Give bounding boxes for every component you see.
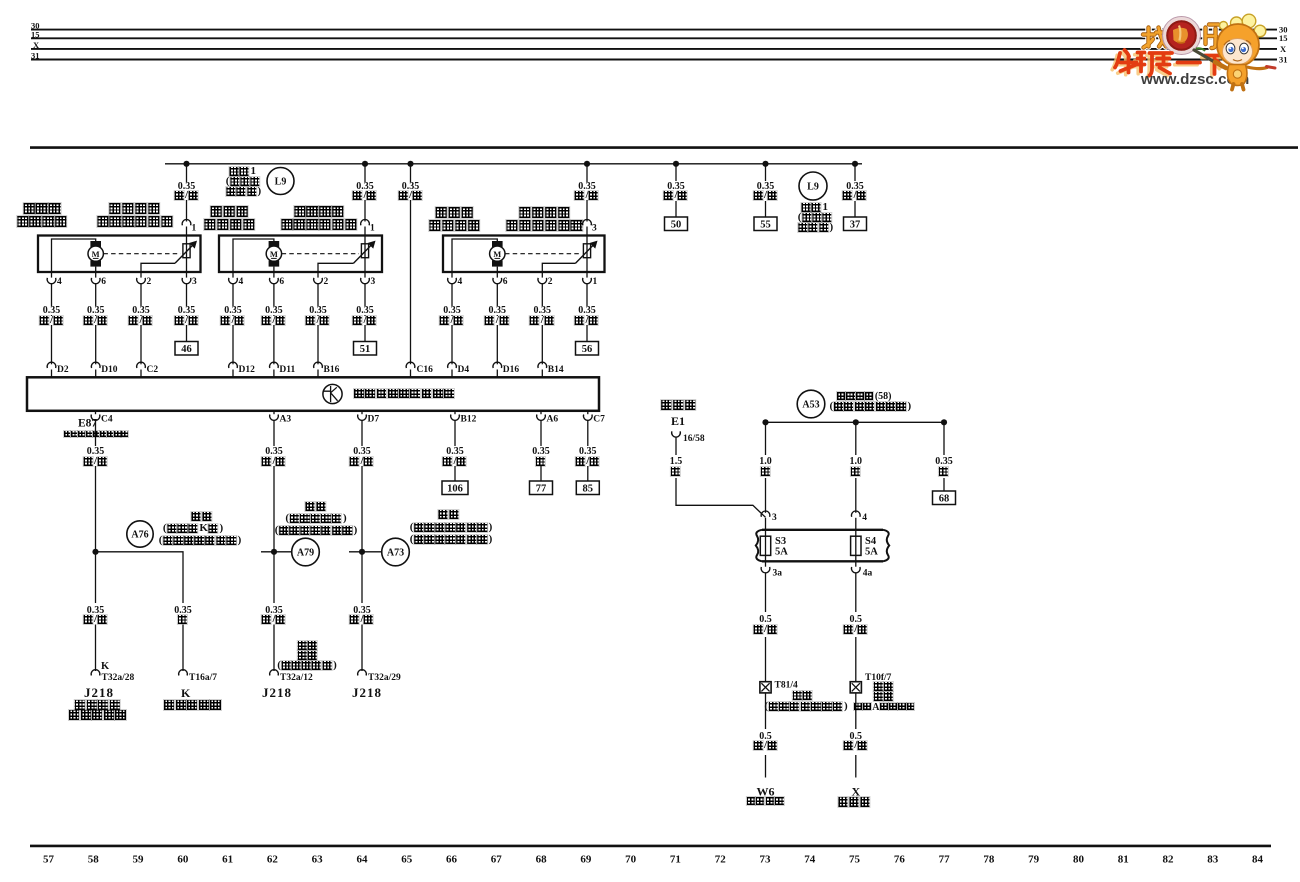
label 连接(自诊断K线)(在仪表板线束内) [191, 512, 212, 521]
wire continues down x=362 [361, 466, 363, 552]
svg-text:L9: L9 [807, 182, 819, 193]
fuse S4 5A [851, 530, 879, 562]
wire down to control unit connector B16 [317, 305, 319, 364]
terminal T32a/12 arc [270, 670, 279, 676]
svg-text:65: 65 [401, 854, 413, 866]
svg-text:16/58: 16/58 [683, 434, 705, 444]
wire continues down x=274 [273, 466, 275, 552]
terminal box 46 [175, 342, 198, 356]
connector C2 arc [137, 362, 146, 368]
wire gauge label 0.35 at x=365 [355, 182, 376, 191]
label 连接(环境温度指示器)(在仪表板线束内) [438, 510, 459, 519]
connector B14 arc [538, 362, 547, 368]
svg-text:106: 106 [447, 484, 463, 495]
svg-text:4: 4 [57, 277, 62, 287]
wire gauge label 0.5 at x=765.5 [758, 615, 774, 624]
svg-text:66: 66 [446, 854, 458, 866]
svg-text:68: 68 [939, 494, 950, 505]
wire down to control unit connector D16 [496, 305, 498, 364]
wire gauge label 1.0 at x=765.5 [758, 457, 774, 466]
fuse holder box (S3,S4) [756, 530, 889, 562]
svg-text:79: 79 [1028, 854, 1040, 866]
label 连接1(在空调线束内) left [230, 167, 257, 176]
label 空调电控和显示单元 (under E87) [64, 431, 129, 437]
pin 3 of defrost flap motor V107 / potentiometer G135 [361, 272, 376, 305]
svg-text:68: 68 [536, 854, 548, 866]
pin 2 of left temperature motor V158 / potentiometer G220 [137, 272, 152, 305]
svg-text:4: 4 [458, 277, 463, 287]
svg-text:46: 46 [181, 344, 192, 355]
wire gauge label 1.0 at x=855.8 [848, 457, 864, 466]
svg-text:77: 77 [939, 854, 951, 866]
wire gauge label 0.35 at x=542.3 [532, 306, 553, 315]
svg-text:A3: A3 [280, 415, 292, 425]
wire from pin to terminal box 51 [364, 305, 366, 342]
label 插头 棕色 左侧A柱分线器 [874, 682, 895, 691]
wire red/yellow feed to pot top pin at x=365 [364, 164, 366, 222]
wire gauge label 0.35 at x=274 [264, 606, 285, 615]
wire gauge label 0.35 at x=183 [173, 606, 194, 615]
connector D12 arc [229, 362, 238, 368]
watermark: mascot [1194, 14, 1275, 89]
svg-text:4: 4 [862, 513, 867, 523]
wire gauge label 0.35 at x=541 [531, 447, 552, 456]
terminal T32a/29 arc [358, 670, 367, 676]
svg-text:80: 80 [1073, 854, 1085, 866]
pin 6 of left temperature motor V158 / potentiometer G220 [91, 272, 106, 305]
svg-text:T16a/7: T16a/7 [189, 673, 217, 683]
wire down to terminal T16a/7 [182, 602, 184, 604]
svg-text:L9: L9 [275, 177, 287, 188]
bottom track numbers 57-84 [43, 854, 1264, 866]
wire red/yellow feed to pot top pin at x=186.5 [186, 164, 188, 222]
junction node x=186.5 [183, 161, 189, 167]
terminal 16/58 of E1 [672, 431, 705, 455]
wire down to control unit connector B14 [541, 305, 543, 364]
pin 4 of left temperature motor V158 / potentiometer G220 [47, 272, 62, 305]
wire 0.35 grey stub to terminal box 68 [943, 422, 945, 455]
terminal box 50 [665, 217, 688, 231]
wire red/yellow feed to pot top pin at x=587 [586, 164, 588, 222]
wire gauge label 0.35 at x=765.5 [755, 182, 776, 191]
svg-text:15: 15 [31, 29, 40, 39]
wire gauge label 0.35 at x=944 [934, 457, 955, 466]
wire 1.5 grey from E1 to fuse S3 [676, 478, 766, 517]
svg-text:M: M [92, 249, 100, 259]
wire gauge label 0.35 at x=365 [355, 306, 376, 315]
connector L9 (left) [267, 168, 294, 195]
svg-text:3: 3 [592, 224, 597, 234]
svg-text:64: 64 [356, 854, 368, 866]
junction node on C4 wire [92, 549, 98, 555]
branch wire to diagnostic K-line [96, 552, 184, 603]
junction node on D7 wire [359, 549, 365, 555]
watermark: magnifier over xin [1163, 17, 1201, 55]
svg-text:2: 2 [324, 277, 329, 287]
wire gauge label 0.5 at x=855.8 [848, 732, 864, 741]
wire gauge label 0.35 at x=587 [577, 306, 598, 315]
svg-text:60: 60 [177, 854, 189, 866]
connector D4 arc [448, 362, 457, 368]
wire red/yellow stub to terminal box 50 [675, 164, 677, 181]
svg-text:76: 76 [894, 854, 906, 866]
connector D11 arc [270, 362, 279, 368]
wire gauge label 0.35 at x=452 [442, 306, 463, 315]
svg-text:78: 78 [983, 854, 995, 866]
wire down to control unit connector D10 [95, 305, 97, 364]
svg-text:85: 85 [583, 484, 594, 495]
terminal T32a/28 arc [91, 670, 100, 676]
svg-text:62: 62 [267, 854, 279, 866]
wire gauge label 0.35 at x=410.5 [400, 182, 421, 191]
wire gauge label 0.35 at x=95.5 [85, 606, 106, 615]
svg-text:A76: A76 [131, 530, 148, 541]
svg-text:70: 70 [625, 854, 637, 866]
A/C control and display unit E87 box [27, 377, 599, 411]
junction node x=765.5 [762, 161, 768, 167]
motor M of defrost flap motor V107 / potentiometer G135 [233, 239, 282, 272]
feed bus wire (0.35 red/yellow distribution) [165, 163, 862, 165]
svg-text:J218: J218 [352, 685, 382, 700]
junction node x=676 [673, 161, 679, 167]
label 插头 (在仪表板右后部) [793, 691, 814, 700]
svg-text:T32a/28: T32a/28 [102, 673, 135, 683]
wire gauge label 0.35 at x=855 [845, 182, 866, 191]
junction node x=365 [362, 161, 368, 167]
svg-text:5A: 5A [865, 547, 878, 558]
left temperature motor V158 / potentiometer G220 box [38, 236, 201, 273]
pin 4 of central flap motor V70 / potentiometer G112 [448, 272, 463, 305]
control unit symbol K [323, 384, 342, 403]
connector C16 arc [406, 362, 415, 368]
label 连接1(在空调线束内) right [802, 203, 829, 212]
pin 2 of central flap motor V70 / potentiometer G112 [538, 272, 553, 305]
connector B16 arc [314, 362, 323, 368]
connector D16 arc [493, 362, 502, 368]
svg-text:C16: C16 [417, 365, 434, 375]
pin 3 connector arc [583, 219, 592, 225]
wire stub to terminal box 106 [454, 466, 456, 481]
junction node on A3 wire [271, 549, 277, 555]
wire continues down x=95.5 [95, 466, 97, 552]
svg-text:J218: J218 [84, 685, 114, 700]
svg-text:A53: A53 [802, 400, 819, 411]
svg-text:4a: 4a [863, 569, 873, 579]
wire down to control unit connector D11 [273, 305, 275, 364]
wire 1.0 grey into fuse pin 3 [765, 422, 767, 455]
plug T81/4 [760, 682, 771, 693]
label central flap motor [436, 207, 475, 218]
svg-text:D12: D12 [239, 365, 256, 375]
svg-text:75: 75 [849, 854, 861, 866]
wire gauge label 0.35 at x=587 [577, 182, 598, 191]
wire gauge label 0.35 at x=587.8 [578, 447, 599, 456]
bus line X [31, 40, 1287, 54]
wire gauge label 0.35 at x=455 [445, 447, 466, 456]
svg-text:C4: C4 [101, 415, 113, 425]
svg-text:1: 1 [593, 277, 598, 287]
svg-text:E1: E1 [671, 414, 685, 428]
plug T10f/7 [850, 682, 861, 693]
central flap motor V70 / potentiometer G112 box [443, 236, 605, 273]
svg-text:2: 2 [147, 277, 152, 287]
terminal box 85 [576, 481, 599, 495]
wire 0.5 below fuse x=765.5 [765, 637, 767, 681]
dashed coupling line in defrost flap motor V107 / potentiometer G135 [282, 253, 359, 255]
bus line 31 [31, 51, 1288, 65]
svg-text:58: 58 [88, 854, 100, 866]
svg-text:6: 6 [279, 277, 284, 287]
pin 2 of defrost flap motor V107 / potentiometer G135 [314, 272, 329, 305]
svg-text:M: M [270, 249, 278, 259]
connector L9 (right) [799, 172, 827, 200]
pin 1 of central flap motor V70 / potentiometer G112 [583, 272, 598, 305]
pin 6 of central flap motor V70 / potentiometer G112 [493, 272, 508, 305]
wire gauge label 0.35 at x=95.5 [85, 447, 106, 456]
bottom coordinate track line [30, 845, 1271, 848]
svg-text:X: X [1280, 44, 1287, 54]
svg-text:6: 6 [101, 277, 106, 287]
bus line 30 (top rail) [31, 21, 1288, 35]
terminal box 55 [754, 217, 777, 231]
wire gauge label 1.5 at x=676 [668, 457, 684, 466]
wire gauge label 0.35 at x=676 [666, 182, 687, 191]
fuse pin 4a arc [851, 562, 872, 613]
junction node x=587 [584, 161, 590, 167]
fuse S3 5A [760, 530, 788, 562]
svg-text:D10: D10 [101, 365, 118, 375]
dashed coupling line in left temperature motor V158 / potentiometer G220 [103, 253, 180, 255]
wire gauge label 0.35 at x=497.3 [487, 306, 508, 315]
dashed coupling line in central flap motor V70 / potentiometer G112 [505, 253, 581, 255]
svg-text:D7: D7 [368, 415, 380, 425]
connector A6 arc below control unit [537, 411, 559, 446]
svg-text:56: 56 [582, 344, 593, 355]
connector B12 arc below control unit [451, 411, 477, 446]
defrost flap motor V107 / potentiometer G135 box [219, 236, 382, 273]
pin 1 connector arc [361, 219, 370, 225]
svg-text:50: 50 [671, 220, 682, 231]
fuse pin 3 arc [761, 511, 770, 517]
bus line 15 [31, 29, 1288, 43]
label left temperature motor potentiometer [109, 203, 161, 214]
wire gauge label 0.35 at x=273.9 [264, 306, 285, 315]
potentiometer of central flap motor V70 / potentiometer G112 [542, 236, 597, 273]
fuse pin 4 arc [851, 511, 860, 517]
wire gauge label 0.35 at x=186.5 [176, 306, 197, 315]
connector A79 circle [292, 538, 320, 566]
label 空调电控和显示单元 (inside K box) [354, 389, 455, 399]
motor M of left temperature motor V158 / potentiometer G220 [52, 239, 104, 272]
svg-text:D4: D4 [458, 365, 470, 375]
label central flap motor potentiometer [519, 207, 571, 218]
svg-text:S3: S3 [775, 536, 786, 547]
svg-text:M: M [493, 249, 501, 259]
wire stub to terminal box 85 [587, 466, 589, 481]
label left temperature motor [23, 203, 62, 214]
svg-text:77: 77 [536, 484, 547, 495]
svg-text:59: 59 [133, 854, 145, 866]
svg-text:82: 82 [1163, 854, 1175, 866]
junction node x=855.8 on A53 bus [853, 419, 859, 425]
wire gauge label 0.35 at x=274 [264, 447, 285, 456]
wire down to terminal T32a/29 [361, 552, 363, 603]
pin 6 of defrost flap motor V107 / potentiometer G135 [270, 272, 285, 305]
svg-text:83: 83 [1207, 854, 1219, 866]
svg-text:B16: B16 [324, 365, 340, 375]
junction node x=855 [852, 161, 858, 167]
wire down to control unit connector D4 [451, 305, 453, 364]
wire red/yellow to C16 [410, 164, 412, 364]
wire 0.5 to lamp x=855.8 [855, 693, 857, 729]
wire gauge label 0.35 at x=95.7 [85, 306, 106, 315]
svg-text:T32a/12: T32a/12 [280, 673, 313, 683]
watermark: weiku yixia red characters [1112, 50, 1226, 78]
svg-text:55: 55 [760, 220, 771, 231]
svg-text:81: 81 [1118, 854, 1129, 866]
svg-text:15: 15 [1279, 33, 1288, 43]
svg-text:3a: 3a [773, 569, 783, 579]
wire red/yellow stub to terminal box 55 [765, 164, 767, 181]
wire down to control unit connector C2 [140, 305, 142, 364]
potentiometer of left temperature motor V158 / potentiometer G220 [141, 236, 196, 273]
connector C7 arc below control unit [583, 411, 605, 446]
wire gauge label 0.35 at x=51.5 [41, 306, 62, 315]
svg-text:K: K [101, 661, 110, 672]
connector A76 circle [127, 521, 153, 547]
svg-text:69: 69 [580, 854, 592, 866]
svg-text:51: 51 [360, 344, 371, 355]
label defrost flap motor potentiometer [294, 206, 346, 217]
wire red/yellow stub to terminal box 37 [854, 164, 856, 181]
connector D7 arc below control unit [358, 411, 380, 446]
terminal box 37 [844, 217, 867, 231]
positive connection A53 circle [797, 390, 825, 418]
main supply rail [30, 146, 1298, 149]
junction node x=410.5 [407, 161, 413, 167]
svg-text:6: 6 [503, 277, 508, 287]
svg-text:5A: 5A [775, 547, 788, 558]
svg-text:72: 72 [715, 854, 727, 866]
wire down to control unit connector D2 [51, 305, 53, 364]
motor M of central flap motor V70 / potentiometer G112 [452, 239, 505, 272]
terminal box 77 [530, 481, 553, 495]
svg-text:2: 2 [548, 277, 553, 287]
pin 4 of defrost flap motor V107 / potentiometer G135 [229, 272, 244, 305]
svg-text:73: 73 [759, 854, 771, 866]
wire gauge label 0.35 at x=362 [352, 606, 373, 615]
svg-text:T81/4: T81/4 [775, 681, 798, 691]
svg-text:31: 31 [31, 51, 40, 61]
svg-text:3: 3 [772, 513, 777, 523]
terminal T16a/7 arc [179, 670, 188, 676]
wire gauge label 0.35 at x=141 [131, 306, 152, 315]
label 插头 绿色 (在仪表板上) [298, 641, 319, 650]
terminal box 106 [442, 481, 468, 495]
svg-text:J218: J218 [262, 685, 292, 700]
wire stub to terminal box 77 [540, 466, 542, 481]
svg-text:4: 4 [239, 277, 244, 287]
wire gauge label 0.35 at x=318 [308, 306, 329, 315]
svg-text:3: 3 [371, 277, 376, 287]
wire 1.0 grey into fuse pin 4 [855, 422, 857, 455]
svg-text:K: K [181, 686, 191, 700]
svg-text:63: 63 [312, 854, 324, 866]
junction node x=944 on A53 bus [941, 419, 947, 425]
junction node x=765.5 on A53 bus [762, 419, 768, 425]
terminal box 68 [933, 491, 956, 505]
svg-text:1: 1 [192, 224, 197, 234]
svg-text:D11: D11 [279, 365, 295, 375]
wire from pin to terminal box 56 [586, 305, 588, 342]
wire gauge label 0.35 at x=233 [223, 306, 244, 315]
wire gauge label 0.35 at x=186.5 [176, 182, 197, 191]
wire gauge label 0.5 at x=765.5 [758, 732, 774, 741]
connector A73 circle [382, 538, 410, 566]
svg-text:71: 71 [670, 854, 681, 866]
fuse pin 3a arc [761, 562, 782, 613]
wire down to control unit connector D12 [232, 305, 234, 364]
svg-text:3: 3 [192, 277, 197, 287]
svg-text:S4: S4 [865, 536, 877, 547]
wire from pin to terminal box 46 [186, 305, 188, 342]
watermark: zhao xin pian characters [1143, 25, 1219, 49]
svg-text:61: 61 [222, 854, 233, 866]
potentiometer of defrost flap motor V107 / potentiometer G135 [318, 236, 375, 273]
svg-text:D16: D16 [503, 365, 520, 375]
connector D10 arc [91, 362, 100, 368]
pin 1 connector arc [182, 219, 191, 225]
svg-text:84: 84 [1252, 854, 1264, 866]
svg-text:74: 74 [804, 854, 816, 866]
svg-text:B14: B14 [548, 365, 564, 375]
pin 3 of left temperature motor V158 / potentiometer G220 [182, 272, 197, 305]
connector A3 arc below control unit [270, 411, 292, 446]
svg-text:A6: A6 [547, 415, 559, 425]
svg-text:T32a/29: T32a/29 [368, 673, 401, 683]
connector C4 arc below control unit [91, 411, 113, 446]
terminal box 56 [576, 342, 599, 356]
svg-text:31: 31 [1279, 54, 1288, 64]
label 正极连接(58)(在仪表板线束内) [837, 392, 892, 401]
svg-text:X: X [33, 40, 40, 50]
wire 0.5 to lamp x=765.5 [765, 693, 767, 729]
svg-text:A73: A73 [387, 548, 404, 559]
svg-text:37: 37 [850, 220, 861, 231]
wire 0.5 below fuse x=855.8 [855, 637, 857, 681]
wire gauge label 0.5 at x=855.8 [848, 615, 864, 624]
svg-text:57: 57 [43, 854, 55, 866]
svg-text:B12: B12 [461, 415, 477, 425]
connector D2 arc [47, 362, 56, 368]
svg-text:D2: D2 [57, 365, 69, 375]
wire down to terminal T32a/12 [273, 552, 275, 603]
svg-text:1: 1 [370, 224, 375, 234]
svg-text:E87: E87 [78, 418, 97, 430]
A53 bus wire [766, 421, 945, 423]
svg-text:67: 67 [491, 854, 503, 866]
terminal box 51 [354, 342, 377, 356]
label defrost flap motor [211, 206, 250, 217]
svg-text:A79: A79 [297, 548, 314, 559]
label 连接(加热灯开光)(在仪表板线束内) [305, 502, 326, 511]
svg-text:C2: C2 [147, 365, 159, 375]
wire down to terminal T32a/28 [95, 552, 97, 603]
wire gauge label 0.35 at x=362 [352, 447, 373, 456]
svg-text:C7: C7 [593, 415, 605, 425]
